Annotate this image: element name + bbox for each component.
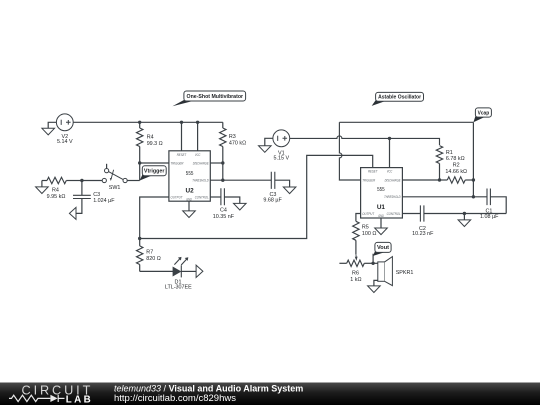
svg-text:R7: R7 [146,250,153,256]
wire R7 to D1 [140,270,173,272]
svg-text:GND: GND [378,214,384,218]
node Vcap flag [473,108,491,122]
wire VCC pin U2 drop [197,122,199,151]
resistor R6 (1 kohm rheostat) [339,260,373,283]
resistor R5 (100 ohm) [353,221,377,254]
svg-text:100 Ω: 100 Ω [362,231,377,237]
note One-Shot Multivibrator [172,91,245,106]
wire ground stub C1/C2 [463,214,465,220]
svg-text:LTL-307EE: LTL-307EE [165,285,192,291]
svg-text:R1: R1 [446,150,453,156]
svg-text:R4: R4 [52,188,59,194]
wire Vout stub [372,254,374,264]
svg-text:THRESHOLD: THRESHOLD [192,179,209,183]
svg-text:6.78 kΩ: 6.78 kΩ [446,156,465,162]
svg-text:VCC: VCC [387,170,393,174]
svg-text:820 Ω: 820 Ω [146,256,161,262]
svg-text:RESET: RESET [368,170,378,174]
svg-text:http://circuitlab.com/c829hws: http://circuitlab.com/c829hws [114,393,236,404]
ground at C3b [283,187,296,194]
svg-text:10.35 nF: 10.35 nF [213,214,235,220]
svg-text:R3: R3 [229,134,236,140]
resistor R2 (14.66 kohm) [440,163,474,184]
svg-text:555: 555 [377,187,385,193]
wire trigger node down to switch [139,163,141,181]
ground at C3 [69,207,76,219]
svg-text:R4: R4 [147,135,154,141]
svg-text:1.08 µF: 1.08 µF [480,214,499,220]
node junction VCC rail [196,121,199,124]
switch SW1 [102,164,127,191]
node Vout flag [373,242,391,256]
node junction VCC U1 [388,137,391,140]
node junction C3 tap [80,179,83,182]
svg-text:14.66 kΩ: 14.66 kΩ [445,169,467,175]
svg-text:555: 555 [186,171,194,177]
resistor R3 (470 kohm) [220,122,247,163]
svg-text:TRIGGER: TRIGGER [171,161,184,165]
capacitor C4 (10.35 nF) [213,188,240,220]
wiper arrow R5 to R6 [355,254,357,257]
wire RESET pin U2 drop [181,122,183,151]
svg-text:TRIGGER: TRIGGER [362,178,375,182]
svg-text:1 kΩ: 1 kΩ [350,277,361,283]
wire speaker to ground [374,280,378,286]
node junction speaker tap [371,262,374,265]
svg-text:OUTPUT: OUTPUT [171,195,184,199]
ground at U2 [183,211,196,218]
svg-text:1.024 µF: 1.024 µF [93,198,115,204]
wire to speaker [373,262,378,264]
resistor R4 (9.95 kohm) [42,177,82,200]
svg-text:R2: R2 [453,163,460,169]
svg-text:Astable Oscillator: Astable Oscillator [378,95,422,101]
footer bar [0,383,540,405]
svg-text:Vout: Vout [377,245,389,251]
wire OUTPUT U2 down [140,197,169,239]
LED D1 LTL-307EE [165,257,192,291]
svg-text:VCC: VCC [195,153,201,157]
svg-text:CONTROL: CONTROL [195,195,209,199]
note Astable Oscillator [372,92,424,106]
wire CONTROL U1 to C2 [402,213,420,215]
svg-text:LAB: LAB [66,395,93,405]
op-amp/timer U1 555 box [361,168,403,218]
svg-text:DISCHARGE: DISCHARGE [193,161,209,165]
svg-text:99.3 Ω: 99.3 Ω [147,141,163,147]
wire DISCHARGE U2 [210,161,224,164]
footer text [114,384,303,404]
wire output run to astable reset [140,155,373,238]
ground at D1 (right facing) [196,265,203,277]
resistor R7 (820 ohm) [137,239,161,272]
ground at V2 [42,128,55,135]
wire CONTROL U2 to C4 [210,196,221,198]
node junction R4 top [138,121,141,124]
voltage source V2 [56,114,73,145]
svg-text:SW1: SW1 [109,185,121,191]
node output junction [138,237,141,240]
voltage source V1 [273,130,290,162]
resistor R1 (6.78 kohm) [436,146,464,180]
svg-text:5.14 V: 5.14 V [57,139,73,145]
node junction ground tap [463,212,466,215]
wire THRESHOLD U1 to C1 [402,196,487,198]
capacitor C3 (1.024 uF) [73,181,115,214]
speaker SPKR1 [378,257,414,286]
wire DISCHARGE U1 to R2 [402,178,441,181]
capacitor C2 (10.23 nF) [412,205,506,237]
wire Vcap vertical to threshold [472,122,475,198]
svg-text:470 kΩ: 470 kΩ [229,141,246,147]
svg-text:10.23 nF: 10.23 nF [412,231,434,237]
wire Vcap top rail [339,121,473,123]
wire top rail one-shot (V2 to R3) [73,121,223,124]
svg-text:THRESHOLD: THRESHOLD [384,195,401,199]
capacitor C1 (1.08 uF) [480,189,506,220]
wire GND U2 stub [188,201,190,211]
wire V1 rail to R1 (hops over vertical) [290,136,440,145]
ground at C1/C2 line [458,220,471,227]
svg-text:GND: GND [186,197,192,201]
capacitor C3 (9.68 uF) [263,172,289,204]
wire V1 to ground [265,138,273,145]
svg-text:5.15 V: 5.15 V [274,156,290,162]
node junction RESET rail [180,121,183,124]
wire SW1 left to node [82,180,102,182]
wire VCC pin U1 drop [389,138,391,167]
svg-text:C4: C4 [220,208,227,214]
svg-text:RESET: RESET [177,153,187,157]
svg-text:CONTROL: CONTROL [387,212,401,216]
resistor R4 (99.3 ohm) [137,122,163,163]
ground at V1 [259,146,272,153]
ground at U1 [375,228,388,235]
svg-text:Vcap: Vcap [478,110,490,116]
svg-text:SPKR1: SPKR1 [396,270,414,276]
wire trigger feedback vertical (hops over reset run) [339,122,360,180]
svg-text:One-Shot Multivibrator: One-Shot Multivibrator [187,94,244,100]
op-amp/timer U2 555 box [169,151,210,202]
node Vtrigger flag [140,166,167,181]
ground at speaker [368,286,381,293]
svg-text:OUTPUT: OUTPUT [362,212,375,216]
wire OUTPUT U1 to R5 [356,214,361,222]
wire SW1 right to trigger [127,180,140,182]
wire GND U1 stub [380,218,382,228]
wire D1 to ground [181,270,196,272]
wire TRIGGER U2 [138,161,169,164]
ground at R4 left [36,187,49,194]
CircuitLab logo [9,384,93,405]
ground at C4 [234,203,247,210]
svg-text:Vtrigger: Vtrigger [144,169,165,175]
wire THRESHOLD U2 to C3 [210,179,271,182]
svg-text:R6: R6 [352,270,359,276]
svg-text:U2: U2 [186,188,195,195]
wire V2 to ground [48,122,56,128]
svg-text:R5: R5 [362,225,369,231]
svg-text:9.68 µF: 9.68 µF [263,197,282,203]
wire R4 left to ground [41,181,43,187]
node trigger junction [138,161,141,164]
svg-text:9.95 kΩ: 9.95 kΩ [47,194,66,200]
svg-text:DISCHARGE: DISCHARGE [385,178,401,182]
svg-text:U1: U1 [377,204,386,211]
wire discharge-threshold tie [222,163,224,180]
